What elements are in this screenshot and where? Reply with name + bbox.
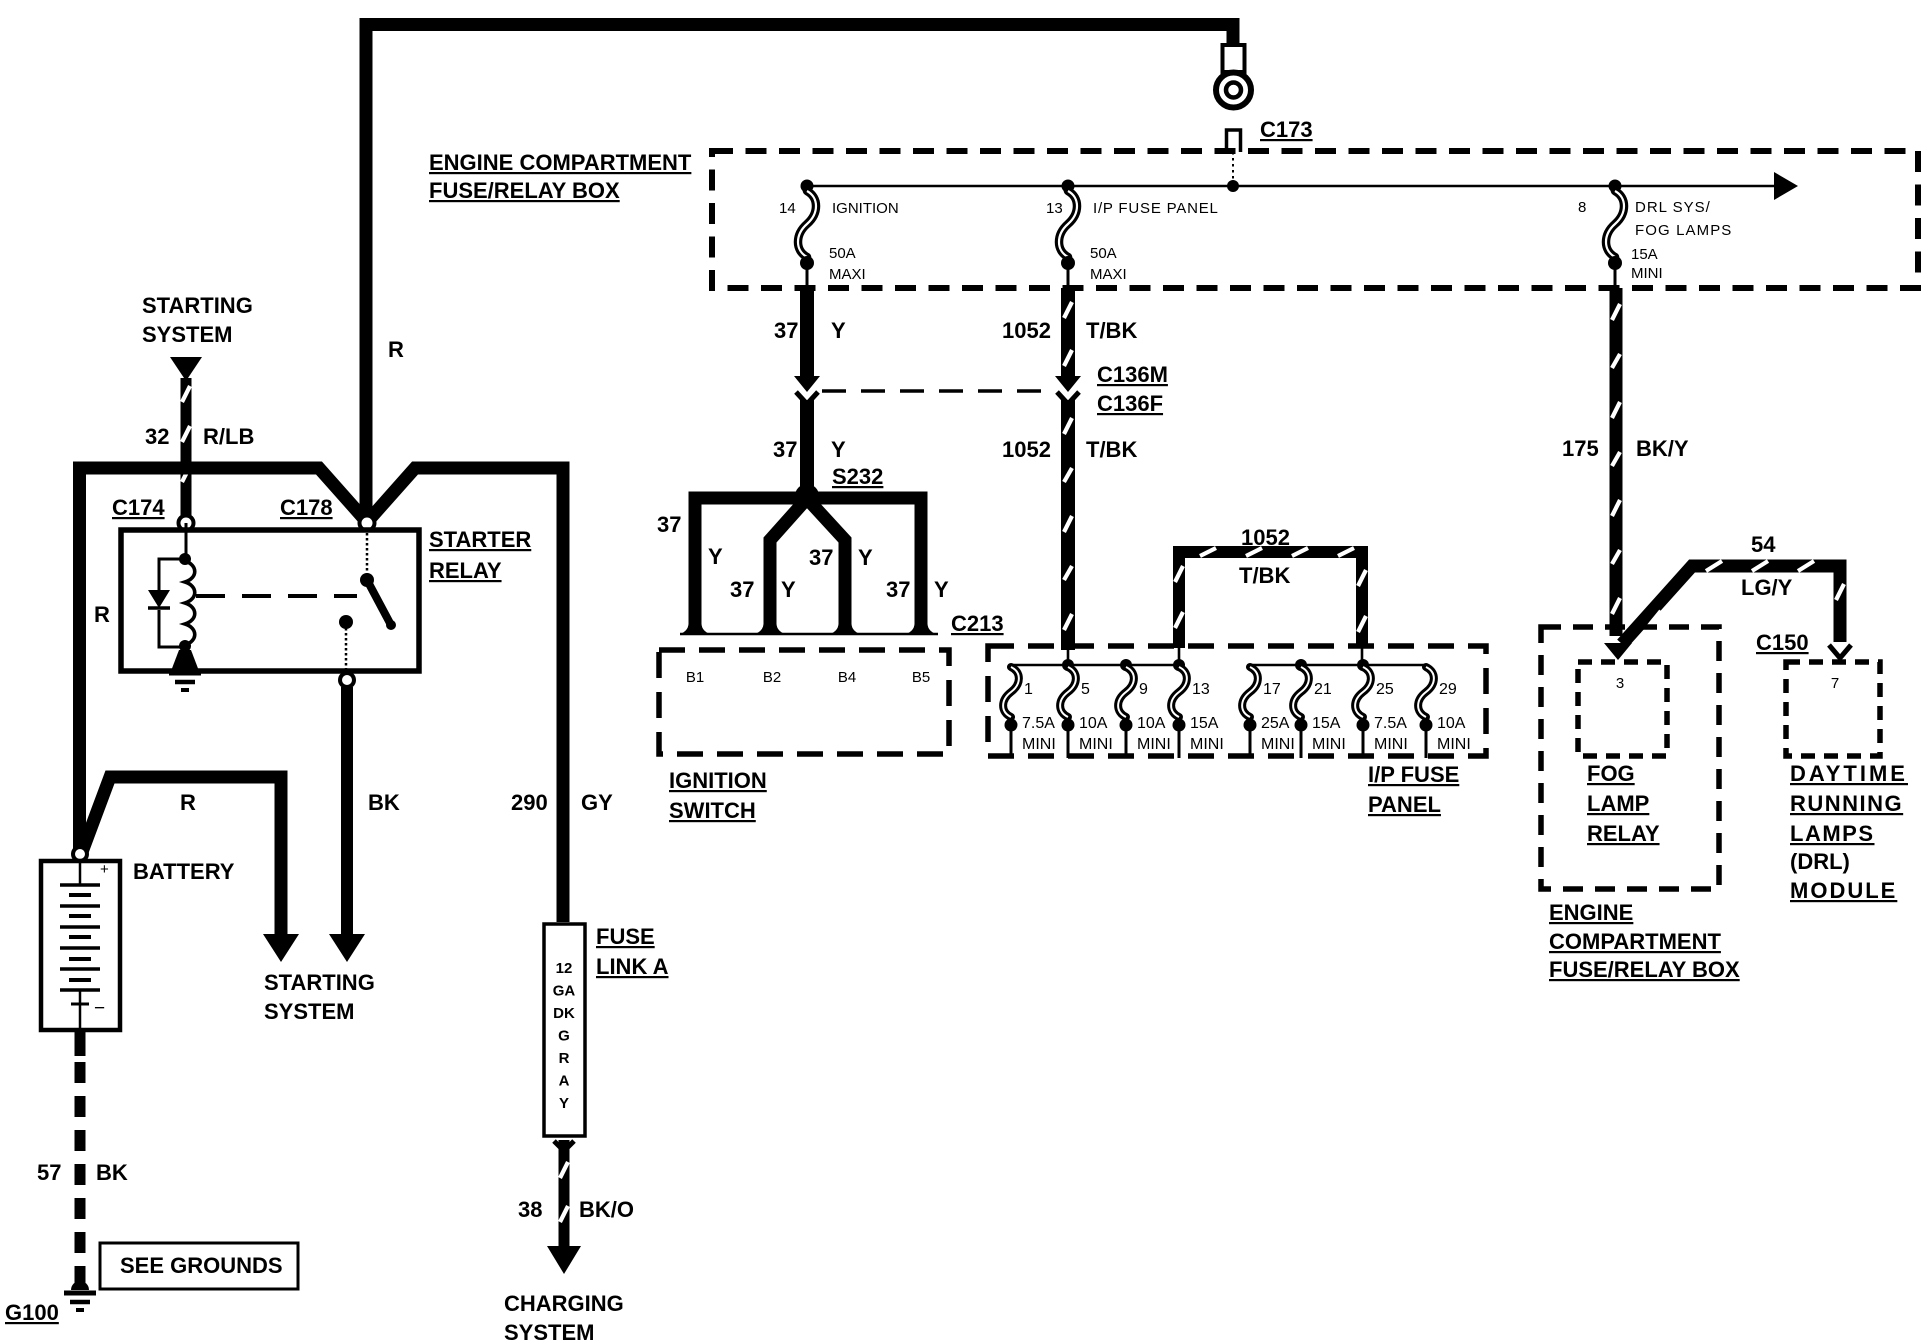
ground G100 bbox=[71, 1281, 89, 1290]
svg-text:R: R bbox=[180, 790, 196, 815]
svg-text:13: 13 bbox=[1192, 681, 1210, 698]
wire R battery to starting system bbox=[82, 777, 281, 936]
connector C136 female chevron (wire 37) bbox=[796, 392, 818, 404]
svg-text:57: 57 bbox=[37, 1160, 61, 1185]
svg-text:MAXI: MAXI bbox=[1090, 266, 1127, 283]
svg-text:RUNNING: RUNNING bbox=[1790, 791, 1903, 816]
svg-text:25A: 25A bbox=[1261, 715, 1290, 732]
svg-text:38: 38 bbox=[518, 1197, 542, 1222]
wire 54 LG/Y (hatched) bbox=[1622, 566, 1840, 644]
svg-text:R: R bbox=[94, 602, 110, 627]
svg-text:15A: 15A bbox=[1190, 715, 1219, 732]
wire 38 BK/O to charging system (hatched) bbox=[554, 1141, 574, 1151]
node: bus junction at fuse 14 bbox=[801, 180, 814, 193]
svg-text:RELAY: RELAY bbox=[1587, 821, 1660, 846]
svg-text:MINI: MINI bbox=[1137, 736, 1171, 753]
relay mechanical link (dashed) bbox=[196, 594, 357, 598]
svg-text:MINI: MINI bbox=[1312, 736, 1346, 753]
wire 1052 T/BK from fuse 13 to C136 (hatched) bbox=[1061, 288, 1075, 377]
ring terminal eyelet at battery feed bbox=[1223, 45, 1245, 72]
svg-text:GY: GY bbox=[581, 790, 613, 815]
svg-text:FUSE/RELAY BOX: FUSE/RELAY BOX bbox=[1549, 957, 1740, 982]
fuse panel bus (right segment) bbox=[1250, 664, 1427, 667]
wire 175 BK/Y from fuse 8 to fog lamp relay (hatched) bbox=[1610, 288, 1623, 636]
fuse 14 IGNITION 50A MAXI bbox=[798, 191, 816, 257]
connector C213 mating line bbox=[680, 633, 938, 636]
svg-text:Y: Y bbox=[708, 544, 723, 569]
svg-text:9: 9 bbox=[1139, 681, 1148, 698]
svg-text:Y: Y bbox=[831, 318, 846, 343]
svg-text:G100: G100 bbox=[5, 1300, 59, 1325]
svg-text:5: 5 bbox=[1081, 681, 1090, 698]
svg-text:I/P FUSE: I/P FUSE bbox=[1368, 762, 1459, 787]
arrow into fog lamp relay pin 3 bbox=[1604, 643, 1632, 660]
svg-text:32: 32 bbox=[145, 424, 169, 449]
svg-text:37: 37 bbox=[657, 512, 681, 537]
relay switch lower contact bbox=[339, 615, 353, 629]
battery bbox=[41, 861, 120, 1030]
svg-text:C150: C150 bbox=[1756, 630, 1809, 655]
svg-text:MINI: MINI bbox=[1190, 736, 1224, 753]
fuse 9 10A MINI (I/P panel) bbox=[1120, 659, 1132, 671]
fuse 21 15A MINI (I/P panel) bbox=[1295, 659, 1307, 671]
connector C178 bbox=[360, 516, 375, 531]
connector C173 bbox=[1227, 130, 1241, 152]
svg-text:IGNITION: IGNITION bbox=[669, 768, 767, 793]
svg-text:BK/Y: BK/Y bbox=[1636, 436, 1689, 461]
svg-text:29: 29 bbox=[1439, 681, 1457, 698]
svg-text:C213: C213 bbox=[951, 611, 1004, 636]
svg-text:ENGINE: ENGINE bbox=[1549, 900, 1633, 925]
svg-text:GA: GA bbox=[553, 983, 576, 1000]
svg-text:MINI: MINI bbox=[1079, 736, 1113, 753]
svg-text:37: 37 bbox=[809, 545, 833, 570]
wire 37 Y from fuse 14 to C136 bbox=[800, 288, 814, 377]
svg-text:FOG: FOG bbox=[1587, 761, 1635, 786]
svg-text:DAYTIME: DAYTIME bbox=[1790, 761, 1908, 786]
svg-text:MINI: MINI bbox=[1437, 736, 1471, 753]
svg-text:10A: 10A bbox=[1079, 715, 1108, 732]
svg-text:COMPARTMENT: COMPARTMENT bbox=[1549, 929, 1721, 954]
svg-text:FOG LAMPS: FOG LAMPS bbox=[1635, 222, 1732, 239]
fuse panel bus (left segment) bbox=[1011, 664, 1179, 667]
fuse 13 I/P FUSE PANEL 50A MAXI bbox=[1059, 191, 1077, 257]
svg-text:50A: 50A bbox=[829, 245, 856, 262]
fuse 25 7.5A MINI (I/P panel) bbox=[1357, 659, 1369, 671]
connector at relay output bbox=[340, 673, 354, 687]
svg-text:+: + bbox=[100, 861, 109, 878]
chevron into DRL module pin 7 bbox=[1829, 645, 1851, 658]
wire 37 Y branch to B4 bbox=[811, 503, 845, 620]
battery positive terminal node bbox=[73, 847, 87, 861]
wire 1052 T/BK from C136 to I/P fuse panel (hatched) bbox=[1061, 400, 1075, 650]
svg-text:C173: C173 bbox=[1260, 117, 1313, 142]
fog lamp relay box (dashed) bbox=[1541, 627, 1719, 889]
diode across coil bbox=[159, 559, 185, 647]
DRL module pin 7 box (dashed) bbox=[1786, 662, 1880, 756]
svg-text:1052: 1052 bbox=[1002, 437, 1051, 462]
svg-text:SWITCH: SWITCH bbox=[669, 798, 756, 823]
connector C174 bbox=[179, 516, 194, 531]
svg-text:MODULE: MODULE bbox=[1790, 878, 1897, 903]
ground inside starter relay bbox=[171, 650, 199, 671]
connector C136 male arrow (wire 37) bbox=[794, 376, 820, 392]
svg-text:STARTER: STARTER bbox=[429, 527, 531, 552]
svg-text:14: 14 bbox=[779, 200, 796, 217]
svg-text:LINK A: LINK A bbox=[596, 954, 669, 979]
svg-text:7.5A: 7.5A bbox=[1022, 715, 1055, 732]
svg-text:17: 17 bbox=[1263, 681, 1281, 698]
wire 32 R/LB from starting system to C174 (hatched) bbox=[170, 357, 202, 381]
svg-text:IGNITION: IGNITION bbox=[832, 200, 899, 217]
starter relay box bbox=[121, 530, 419, 671]
wire 1052 T/BK jumper (hatched staple) bbox=[1179, 552, 1362, 648]
svg-text:G: G bbox=[558, 1028, 570, 1045]
svg-text:1052: 1052 bbox=[1002, 318, 1051, 343]
svg-text:54: 54 bbox=[1751, 532, 1776, 557]
svg-text:STARTING: STARTING bbox=[142, 293, 253, 318]
svg-text:LG/Y: LG/Y bbox=[1741, 575, 1793, 600]
svg-text:1: 1 bbox=[1024, 681, 1033, 698]
svg-text:DRL SYS/: DRL SYS/ bbox=[1635, 199, 1711, 216]
svg-text:3: 3 bbox=[1616, 675, 1624, 692]
svg-text:FUSE: FUSE bbox=[596, 924, 655, 949]
svg-text:Y: Y bbox=[781, 577, 796, 602]
svg-text:B1: B1 bbox=[686, 669, 704, 686]
svg-text:8: 8 bbox=[1578, 199, 1586, 216]
fuse 29 10A MINI (I/P panel) bbox=[1418, 667, 1434, 717]
svg-text:R: R bbox=[559, 1050, 570, 1067]
svg-text:BATTERY: BATTERY bbox=[133, 859, 235, 884]
svg-text:MINI: MINI bbox=[1022, 736, 1056, 753]
svg-text:R/LB: R/LB bbox=[203, 424, 254, 449]
inline connector C136 dashed mating line bbox=[822, 389, 1054, 393]
svg-text:37: 37 bbox=[886, 577, 910, 602]
connector C136 male arrow (wire 1052) bbox=[1055, 376, 1081, 392]
svg-text:C136F: C136F bbox=[1097, 391, 1163, 416]
wire 37 Y branch to B1 bbox=[695, 498, 807, 620]
svg-text:Y: Y bbox=[559, 1095, 569, 1112]
svg-text:15A: 15A bbox=[1312, 715, 1341, 732]
node: bus junction at fuse 13 bbox=[1062, 180, 1075, 193]
fog lamp relay pin 3 box (dashed) bbox=[1578, 662, 1667, 756]
svg-text:25: 25 bbox=[1376, 681, 1394, 698]
fuse 1 7.5A MINI (I/P panel) bbox=[1003, 667, 1019, 717]
svg-text:MAXI: MAXI bbox=[829, 266, 866, 283]
node: bus junction at C173 bbox=[1227, 180, 1239, 192]
svg-text:STARTING: STARTING bbox=[264, 970, 375, 995]
svg-text:B4: B4 bbox=[838, 669, 856, 686]
wire BK from relay to starting system bbox=[341, 687, 353, 938]
svg-text:R: R bbox=[388, 337, 404, 362]
node: bus junction at fuse 8 bbox=[1609, 180, 1622, 193]
wire 37 Y from C136 to splice S232 bbox=[800, 400, 814, 492]
svg-text:SYSTEM: SYSTEM bbox=[142, 322, 232, 347]
svg-text:LAMPS: LAMPS bbox=[1790, 821, 1875, 846]
svg-text:PANEL: PANEL bbox=[1368, 792, 1441, 817]
svg-text:(DRL): (DRL) bbox=[1790, 849, 1850, 874]
svg-text:C178: C178 bbox=[280, 495, 333, 520]
svg-text:MINI: MINI bbox=[1374, 736, 1408, 753]
svg-text:ENGINE COMPARTMENT: ENGINE COMPARTMENT bbox=[429, 150, 692, 175]
svg-text:B2: B2 bbox=[763, 669, 781, 686]
svg-text:−: − bbox=[94, 998, 105, 1019]
svg-text:B5: B5 bbox=[912, 669, 930, 686]
wire C174 to relay coil bbox=[185, 523, 188, 560]
svg-text:Y: Y bbox=[831, 437, 846, 462]
svg-text:RELAY: RELAY bbox=[429, 558, 502, 583]
svg-text:175: 175 bbox=[1562, 436, 1599, 461]
svg-text:SYSTEM: SYSTEM bbox=[264, 999, 354, 1024]
wire 37 Y branch to B5 bbox=[807, 498, 921, 620]
svg-text:10A: 10A bbox=[1137, 715, 1166, 732]
svg-text:MINI: MINI bbox=[1261, 736, 1295, 753]
wire R: battery feed top bus to ring terminal bbox=[366, 25, 1233, 521]
bus wire inside engine box with arrow bbox=[807, 185, 1776, 188]
svg-text:Y: Y bbox=[858, 545, 873, 570]
svg-text:BK: BK bbox=[96, 1160, 128, 1185]
SEE GROUNDS box bbox=[100, 1243, 298, 1289]
splice S232 bbox=[795, 484, 819, 508]
relay switch bbox=[366, 528, 369, 578]
svg-text:LAMP: LAMP bbox=[1587, 791, 1649, 816]
svg-text:37: 37 bbox=[773, 437, 797, 462]
ignition switch box (dashed) bbox=[659, 650, 949, 754]
svg-text:MINI: MINI bbox=[1631, 265, 1663, 282]
I/P fuse panel box (dashed) bbox=[988, 646, 1486, 756]
svg-text:FUSE/RELAY BOX: FUSE/RELAY BOX bbox=[429, 178, 620, 203]
svg-text:Y: Y bbox=[934, 577, 949, 602]
fuse 5 10A MINI (I/P panel) bbox=[1062, 659, 1074, 671]
svg-text:7.5A: 7.5A bbox=[1374, 715, 1407, 732]
svg-text:T/BK: T/BK bbox=[1239, 563, 1290, 588]
relay coil bbox=[185, 561, 195, 645]
fuse link A bbox=[544, 924, 585, 1136]
svg-text:37: 37 bbox=[730, 577, 754, 602]
node coil top bbox=[179, 553, 191, 565]
svg-text:T/BK: T/BK bbox=[1086, 318, 1137, 343]
svg-text:C136M: C136M bbox=[1097, 362, 1168, 387]
wire 57 BK battery to ground (dashed) bbox=[75, 1030, 86, 1056]
svg-text:DK: DK bbox=[553, 1005, 575, 1022]
svg-text:I/P FUSE PANEL: I/P FUSE PANEL bbox=[1093, 200, 1219, 217]
svg-text:15A: 15A bbox=[1631, 246, 1658, 263]
svg-text:7: 7 bbox=[1831, 675, 1839, 692]
svg-text:S232: S232 bbox=[832, 464, 883, 489]
svg-text:50A: 50A bbox=[1090, 245, 1117, 262]
svg-text:BK: BK bbox=[368, 790, 400, 815]
svg-text:13: 13 bbox=[1046, 200, 1063, 217]
connector C136 female chevron (wire 1052) bbox=[1057, 392, 1079, 404]
engine compartment fuse/relay box (dashed) bbox=[712, 151, 1918, 288]
svg-text:1052: 1052 bbox=[1241, 525, 1290, 550]
svg-text:SYSTEM: SYSTEM bbox=[504, 1320, 594, 1344]
wire 1052 entry into fuse panel bbox=[1067, 650, 1070, 665]
svg-text:T/BK: T/BK bbox=[1086, 437, 1137, 462]
svg-text:SEE GROUNDS: SEE GROUNDS bbox=[120, 1253, 283, 1278]
svg-text:BK/O: BK/O bbox=[579, 1197, 634, 1222]
svg-text:290: 290 bbox=[511, 790, 548, 815]
node coil bottom bbox=[179, 640, 191, 652]
svg-text:CHARGING: CHARGING bbox=[504, 1291, 624, 1316]
fuse 17 25A MINI (I/P panel) bbox=[1242, 667, 1258, 717]
svg-text:37: 37 bbox=[774, 318, 798, 343]
svg-text:C174: C174 bbox=[112, 495, 165, 520]
fuse 13 15A MINI (I/P panel) bbox=[1173, 659, 1185, 671]
fuse 8 DRL SYS/FOG LAMPS 15A MINI bbox=[1606, 191, 1624, 257]
svg-text:21: 21 bbox=[1314, 681, 1332, 698]
main bus battery to C178 and fuse link (R) bbox=[80, 468, 367, 852]
wire 37 Y branch to B2 bbox=[770, 503, 803, 620]
svg-text:A: A bbox=[559, 1073, 570, 1090]
svg-text:10A: 10A bbox=[1437, 715, 1466, 732]
svg-text:12: 12 bbox=[556, 960, 573, 977]
